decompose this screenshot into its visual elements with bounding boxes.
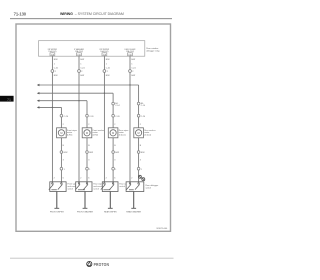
svg-text:B/W: B/W (54, 75, 58, 77)
svg-text:(LHD): (LHD) (67, 135, 73, 137)
svg-text:FRONT WASHER: FRONT WASHER (77, 210, 94, 213)
svg-text:2: 2 (106, 178, 108, 180)
svg-text:2: 2 (81, 71, 83, 73)
svg-text:B/W: B/W (80, 75, 84, 77)
svg-text:3: 3 (88, 159, 90, 161)
svg-text:C-01: C-01 (80, 68, 85, 70)
svg-text:2: 2 (140, 124, 142, 126)
svg-text:C-26: C-26 (115, 116, 120, 118)
svg-text:B: B (114, 145, 116, 147)
svg-text:switch: switch (119, 185, 125, 188)
svg-text:B/W: B/W (80, 59, 84, 61)
svg-text:3: 3 (114, 159, 116, 161)
svg-text:2: 2 (63, 124, 65, 126)
svg-text:PROTON: PROTON (94, 261, 110, 267)
svg-text:REAR WASHER: REAR WASHER (126, 210, 141, 213)
svg-text:1: 1 (89, 169, 91, 171)
svg-text:C-01: C-01 (106, 68, 111, 70)
svg-text:1: 1 (80, 63, 82, 65)
svg-text:6: 6 (63, 178, 65, 180)
svg-text:REAR WIPER: REAR WIPER (104, 210, 117, 213)
svg-text:(LHD): (LHD) (93, 135, 99, 137)
svg-text:3: 3 (140, 159, 142, 161)
svg-text:6: 6 (88, 178, 90, 180)
svg-text:B: B (88, 145, 90, 147)
svg-text:2: 2 (88, 124, 90, 126)
svg-text:B: B (140, 145, 142, 147)
svg-text:1: 1 (115, 169, 117, 171)
svg-text:1: 1 (64, 169, 66, 171)
svg-text:defogger relay: defogger relay (146, 49, 160, 52)
svg-text:B/W: B/W (106, 59, 110, 61)
svg-text:(5 door): (5 door) (144, 135, 151, 137)
svg-text:M: M (112, 131, 114, 135)
svg-text:C-26: C-26 (89, 116, 94, 118)
svg-text:2: 2 (55, 71, 57, 73)
svg-text:M: M (138, 131, 140, 135)
svg-text:1: 1 (141, 169, 143, 171)
svg-text:B/W: B/W (131, 75, 135, 77)
svg-text:2: 2 (107, 71, 109, 73)
svg-text:2: 2 (131, 178, 133, 180)
svg-text:2: 2 (132, 71, 134, 73)
svg-text:B/W: B/W (106, 75, 110, 77)
svg-text:(5 door): (5 door) (119, 135, 126, 137)
svg-text:1: 1 (106, 63, 108, 65)
svg-text:2: 2 (80, 178, 82, 180)
svg-text:1: 1 (131, 63, 133, 65)
svg-text:M: M (86, 131, 88, 135)
svg-text:WIRING – SYSTEM CIRCUIT DIAGRA: WIRING – SYSTEM CIRCUIT DIAGRAM (60, 12, 124, 16)
svg-text:C-14: C-14 (141, 105, 146, 107)
svg-text:B/W: B/W (131, 59, 135, 61)
svg-text:C-26: C-26 (141, 116, 146, 118)
svg-text:M: M (60, 131, 62, 135)
svg-text:71: 71 (7, 98, 11, 102)
svg-text:B: B (63, 145, 65, 147)
svg-text:C-26: C-26 (64, 116, 69, 118)
svg-text:6: 6 (114, 178, 116, 180)
svg-text:C-01: C-01 (131, 68, 136, 70)
svg-text:B/W: B/W (115, 152, 119, 154)
svg-text:B/W: B/W (64, 152, 68, 154)
svg-text:1: 1 (54, 63, 56, 65)
svg-text:SLW71-040: SLW71-040 (156, 228, 168, 230)
svg-text:2: 2 (114, 124, 116, 126)
svg-text:71-130: 71-130 (14, 12, 27, 17)
svg-text:C-01: C-01 (54, 68, 59, 70)
svg-text:C-14: C-14 (115, 105, 120, 107)
svg-text:B/W: B/W (141, 152, 145, 154)
svg-text:3: 3 (63, 159, 65, 161)
svg-text:switch: switch (93, 187, 99, 190)
svg-text:FRONT WIPER: FRONT WIPER (50, 211, 65, 213)
svg-text:2: 2 (54, 178, 56, 180)
svg-text:switch: switch (146, 186, 152, 189)
svg-text:B/W: B/W (54, 59, 58, 61)
svg-text:B/W: B/W (89, 152, 93, 154)
svg-text:switch: switch (68, 187, 74, 190)
